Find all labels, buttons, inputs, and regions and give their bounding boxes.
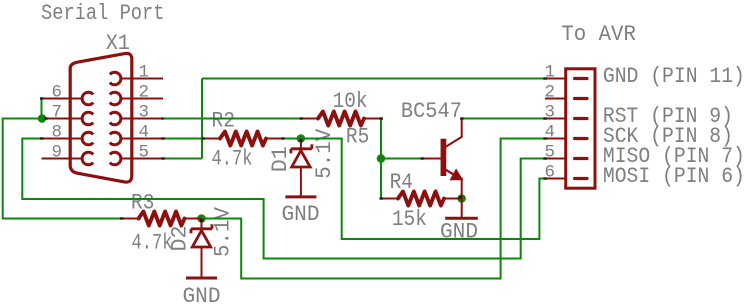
svg-text:Serial Port: Serial Port [41, 0, 165, 26]
X1 pin number 7 [52, 103, 63, 123]
X1 pin stub 4 [132, 138, 163, 140]
svg-text:2: 2 [545, 83, 556, 103]
wire SCK net R3/D2 node to AVR pin4 [202, 139, 546, 279]
wire R5 to base node [380, 119, 382, 159]
AVR header pin number 1 [545, 63, 556, 83]
wire MOSI net D1 node to corner [301, 139, 545, 240]
X1 contact arc pin 7 [70, 112, 93, 125]
diode D2 value 5.1V [209, 206, 235, 257]
X1 pin stub 2 [132, 98, 163, 100]
svg-text:D1: D1 [267, 146, 293, 172]
title Serial Port [41, 0, 165, 26]
resistor R5 name [346, 124, 369, 150]
svg-text:To AVR: To AVR [561, 21, 636, 47]
wire base node down to R4 [380, 159, 382, 199]
svg-text:GND: GND [183, 283, 221, 304]
X1 pin stub 9 [42, 158, 71, 160]
svg-text:R3: R3 [131, 190, 154, 216]
zener diode D1 [291, 139, 312, 197]
connector X1 name label [106, 30, 130, 56]
svg-text:R5: R5 [346, 124, 369, 150]
diode D1 name [267, 146, 293, 172]
svg-text:6: 6 [52, 83, 63, 103]
X1 contact arc pin 9 [70, 152, 93, 165]
wire overlay MOSI over D1 value text [303, 138, 342, 140]
wire X1 pin4 to R2 [163, 138, 203, 140]
X1 pin stub 6 [42, 98, 71, 100]
X1 pin number 3 [139, 103, 150, 123]
junction R4 emitter node [457, 194, 466, 203]
wire overlay MOSI over GND text [342, 238, 540, 240]
svg-text:MOSI (PIN 6): MOSI (PIN 6) [603, 163, 745, 189]
X1 contact arc pin 2 [110, 92, 132, 105]
svg-text:5.1V: 5.1V [209, 206, 235, 257]
label RST (PIN 9) [603, 103, 733, 129]
ground label below Q1 emitter [440, 218, 478, 244]
junction Q1 base node [377, 154, 386, 163]
wire X1 pin3 to R5 [163, 118, 301, 120]
X1 pin number 5 [139, 143, 150, 163]
resistor R2 name [212, 107, 235, 133]
zener diode D2 [191, 219, 212, 279]
ground symbol below D1 [285, 195, 316, 198]
X1 pin stub 3 [132, 118, 163, 120]
resistor R4 [381, 192, 462, 206]
wire SCK net X1 pin7 to R3 [3, 119, 122, 219]
label SCK (PIN 8) [603, 123, 733, 149]
svg-text:GND (PIN 11): GND (PIN 11) [603, 63, 745, 89]
svg-text:5.1V: 5.1V [311, 128, 337, 179]
svg-text:4.7k: 4.7k [212, 146, 253, 172]
AVR header pin number 4 [545, 123, 556, 143]
svg-text:10k: 10k [333, 88, 368, 114]
AVR header contact mark 1 [575, 77, 587, 80]
svg-text:D2: D2 [167, 226, 193, 252]
label GND (PIN 11) [603, 63, 745, 89]
ground symbol below Q1 emitter [445, 217, 478, 220]
svg-text:2: 2 [139, 83, 150, 103]
resistor R5 [301, 112, 381, 126]
diode D1 value 5.1V [311, 128, 337, 179]
title To AVR [561, 21, 636, 47]
resistor R4 value 15k [392, 206, 427, 232]
AVR header pin stub 3 [545, 118, 566, 120]
resistor R3 name [131, 190, 154, 216]
wire overlay SCK over D2 value text [206, 218, 241, 220]
junction D2 node [197, 214, 206, 223]
wire X1 pin6 tie to pin7 [41, 99, 43, 119]
AVR header contact mark 6 [575, 177, 587, 180]
svg-text:GND: GND [440, 218, 478, 244]
resistor R2 value 4.7k [212, 146, 253, 172]
wire R2 to D1 node [283, 138, 301, 140]
X1 contact arc pin 5 [110, 152, 132, 165]
svg-text:9: 9 [52, 143, 63, 163]
ground label below D1 [282, 201, 320, 227]
X1 pin number 4 [139, 123, 150, 143]
X1 contact arc pin 6 [70, 92, 93, 105]
AVR header pin number 5 [545, 143, 556, 163]
svg-text:5: 5 [139, 143, 150, 163]
svg-text:R2: R2 [212, 107, 235, 133]
wire GND net riser [201, 79, 203, 159]
X1 pin stub 8 [42, 138, 71, 140]
X1 contact arc pin 8 [70, 132, 93, 145]
X1 contact arc pin 3 [110, 112, 132, 125]
transistor Q1 BC547 [422, 119, 462, 219]
AVR header connector body [566, 69, 595, 188]
wire GND net: X1 pin5 to riser [163, 158, 202, 160]
resistor R4 name [390, 169, 413, 195]
wire base node to Q1 base [381, 158, 422, 160]
AVR header contact mark 4 [575, 137, 587, 140]
svg-text:15k: 15k [392, 206, 427, 232]
svg-text:7: 7 [52, 103, 63, 123]
junction D1 node [297, 134, 306, 143]
pin connection marks [40, 77, 547, 222]
X1 contact arc pin 1 [110, 72, 132, 85]
svg-text:8: 8 [52, 123, 63, 143]
AVR header pin stub 1 [545, 78, 566, 80]
connector X1 DB9 body [70, 53, 132, 182]
AVR header pin stub 5 [545, 158, 566, 160]
X1 pin number 9 [52, 143, 63, 163]
diode D2 name [167, 226, 193, 252]
label MOSI (PIN 6) [603, 163, 745, 189]
resistor R2 [203, 132, 283, 146]
transistor Q1 value BC547 [401, 98, 462, 124]
svg-text:1: 1 [139, 63, 150, 83]
wire overlay pin3 run over R2 text [163, 118, 300, 120]
ground symbol below D2 [186, 277, 217, 280]
X1 pin stub 1 [132, 78, 163, 80]
wire overlay MISO over R3 text [22, 198, 263, 200]
X1 pin number 2 [139, 83, 150, 103]
AVR header pin stub 6 [545, 178, 566, 180]
X1 pin stub 7 [42, 118, 71, 120]
label MISO (PIN 7) [603, 143, 745, 169]
X1 pin number 6 [52, 83, 63, 103]
AVR header contact mark 2 [575, 97, 587, 100]
wire Q1 collector to AVR pin3 RST [462, 118, 545, 120]
X1 contact arc pin 4 [110, 132, 132, 145]
ground label below D2 [183, 283, 221, 304]
AVR header pin number 3 [545, 103, 556, 123]
junction X1 pin6/pin7 node [38, 114, 47, 123]
svg-text:GND: GND [282, 201, 320, 227]
AVR header contact mark 5 [575, 157, 587, 160]
resistor R5 value 10k [333, 88, 368, 114]
wire GND net top run to AVR pin1 [202, 78, 545, 80]
AVR header pin stub 2 [545, 98, 566, 100]
X1 pin number 8 [52, 123, 63, 143]
X1 pin number 1 [139, 63, 150, 83]
AVR header contact mark 3 [575, 117, 587, 120]
wire MISO net X1 pin8 to AVR pin5 [22, 139, 545, 259]
resistor R3 [122, 212, 202, 226]
AVR header pin stub 4 [545, 138, 566, 140]
svg-text:4: 4 [139, 123, 150, 143]
svg-text:BC547: BC547 [401, 98, 462, 124]
X1 pin stub 5 [132, 158, 163, 160]
resistor R3 value 4.7k [132, 230, 173, 256]
svg-text:R4: R4 [390, 169, 413, 195]
svg-text:3: 3 [139, 103, 150, 123]
AVR header pin number 2 [545, 83, 556, 103]
AVR header pin number 6 [545, 163, 556, 183]
